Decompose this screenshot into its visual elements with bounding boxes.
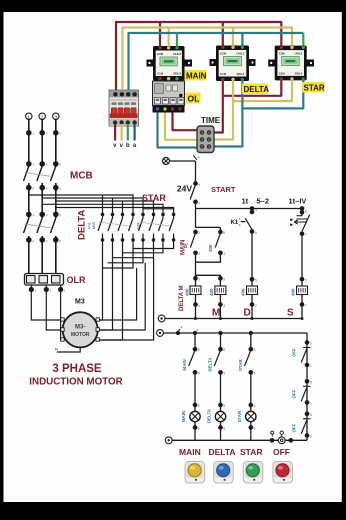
node M2 bottom xyxy=(219,303,222,306)
svg-text:M: M xyxy=(212,308,220,319)
label MAIN highlight xyxy=(185,70,207,81)
wire branch b2 L2 to star bank s1 xyxy=(42,188,143,213)
svg-text:4: 4 xyxy=(198,252,200,256)
wire motor terminal 2V to star riser xyxy=(98,263,145,330)
svg-text:K1: K1 xyxy=(231,220,239,226)
MAIN contactor pole 3 xyxy=(51,188,58,242)
node 1 xyxy=(194,200,197,203)
svg-text:STAR: STAR xyxy=(237,410,242,422)
wire MCB bottom B xyxy=(127,124,129,141)
svg-text:M3-: M3- xyxy=(75,325,85,331)
motor terminal marks xyxy=(61,318,100,341)
node D6 xyxy=(250,230,253,233)
svg-text:1t: 1t xyxy=(242,197,249,206)
node S bottom xyxy=(300,303,303,306)
svg-text:DELTA: DELTA xyxy=(244,85,270,94)
svg-text:TIME: TIME xyxy=(201,116,221,125)
linkage bar main contacts xyxy=(25,224,53,228)
frame bars xyxy=(0,0,346,12)
ground symbol rail3 xyxy=(165,437,172,444)
OLR overload relay box xyxy=(25,274,64,286)
wire yellow drop to MAIN xyxy=(168,28,170,47)
svg-text:1: 1 xyxy=(198,201,200,205)
svg-text:R01: R01 xyxy=(88,222,92,229)
wire delta outputs down to motor xyxy=(98,240,123,340)
timer delay contact S column xyxy=(294,209,307,225)
wire red drop to MAIN xyxy=(159,22,161,46)
svg-text:9: 9 xyxy=(198,372,200,376)
svg-text:4: 4 xyxy=(181,326,183,330)
DELTA bank contacts 4 poles xyxy=(98,213,133,240)
MCB breaker pole 1 xyxy=(24,166,29,192)
wire red drop to DELTA xyxy=(222,22,224,46)
svg-text:b: b xyxy=(126,143,130,149)
svg-text:8: 8 xyxy=(198,404,200,408)
svg-text:C1N: C1N xyxy=(279,72,285,76)
svg-text:UHL3: UHL3 xyxy=(236,52,244,56)
node M coil top right xyxy=(219,277,222,280)
STAR bank dots xyxy=(141,213,175,242)
wire coil bottoms M xyxy=(196,295,221,319)
lamp pilot 24V xyxy=(163,158,170,165)
wire phase L2 vertical xyxy=(40,120,44,167)
svg-text:OFF: OFF xyxy=(292,389,297,398)
svg-text:INDUCTION MOTOR: INDUCTION MOTOR xyxy=(29,377,122,388)
wire riser delta d1 xyxy=(102,195,104,213)
ground symbol rail2 xyxy=(157,330,164,337)
svg-text:D: D xyxy=(244,308,251,319)
node M5 xyxy=(219,230,222,233)
node M2 xyxy=(194,230,197,233)
svg-text:C2N: C2N xyxy=(220,52,226,56)
wire motor terminal 2W to star riser xyxy=(98,258,154,340)
wire OL yellow to timer xyxy=(165,112,202,140)
svg-text:1: 1 xyxy=(28,115,31,120)
wire link s4 to d4 xyxy=(133,240,174,249)
node M4 right xyxy=(219,251,222,254)
wire green drop to MAIN xyxy=(176,33,178,46)
wire star tie bar xyxy=(143,208,174,210)
wire OLR to motor U1 xyxy=(31,290,62,321)
svg-text:DELTA: DELTA xyxy=(77,210,88,240)
wire riser delta d3 xyxy=(122,201,124,213)
svg-text:5: 5 xyxy=(310,342,312,346)
svg-text:9: 9 xyxy=(198,427,200,431)
switch K1 blade D column xyxy=(241,209,252,230)
wire phase L1 vertical xyxy=(27,120,31,167)
node S5 xyxy=(300,211,303,214)
wire M parallel merge xyxy=(196,253,221,278)
wire control rail upper xyxy=(195,161,197,184)
wire yellow drop to DELTA xyxy=(232,28,234,46)
svg-text:STAR: STAR xyxy=(238,359,243,371)
coil S xyxy=(297,286,308,295)
svg-text:8: 8 xyxy=(223,348,225,352)
wire branch b1 L1 to delta bank xyxy=(29,188,133,213)
wire red supply bus xyxy=(116,22,281,90)
svg-text:1: 1 xyxy=(310,364,312,368)
svg-text:3: 3 xyxy=(223,304,225,308)
STAR bank contacts 4 poles xyxy=(139,213,174,240)
wire D column xyxy=(251,232,253,287)
MAIN contactor pole 1 xyxy=(24,188,31,242)
wire link s3 to d3 xyxy=(123,240,164,253)
tiny contact numbers control xyxy=(198,156,307,309)
node S branch xyxy=(300,207,303,210)
contactor MAIN xyxy=(147,46,193,81)
label STAR highlight xyxy=(302,82,325,93)
wire riser delta d2 xyxy=(112,198,114,213)
svg-text:C2N: C2N xyxy=(279,52,285,56)
svg-text:SDL4: SDL4 xyxy=(237,72,245,76)
wire MCB bottom Y xyxy=(120,124,122,141)
svg-text:b: b xyxy=(198,156,200,160)
wire motor terminal 2U to star riser xyxy=(98,268,137,320)
wire phases down to OLR xyxy=(29,240,56,273)
node L2 supply terminal xyxy=(39,113,45,119)
svg-text:3 PHASE: 3 PHASE xyxy=(52,363,102,375)
node M coil top left xyxy=(194,277,197,280)
tiny pole numbers xyxy=(32,132,65,293)
svg-text:2: 2 xyxy=(41,115,44,120)
wire DELTA yellow down to timer xyxy=(210,80,233,140)
svg-text:5–2: 5–2 xyxy=(257,197,270,206)
svg-text:2: 2 xyxy=(305,279,307,283)
wire OLR to motor V1 xyxy=(46,290,62,331)
pushbutton blue xyxy=(214,462,234,484)
svg-text:M3: M3 xyxy=(75,299,85,306)
svg-text:MAIN: MAIN xyxy=(186,72,207,81)
svg-text:OFF: OFF xyxy=(292,348,297,357)
svg-text:STAR: STAR xyxy=(304,84,325,93)
svg-text:MOTOR: MOTOR xyxy=(71,332,90,338)
svg-text:24V: 24V xyxy=(177,184,192,194)
svg-text:6: 6 xyxy=(255,231,257,235)
labels v v b a xyxy=(113,143,137,149)
contactor DELTA xyxy=(210,46,256,82)
svg-text:5: 5 xyxy=(223,278,225,282)
wire D coil bottom xyxy=(251,295,253,319)
wire branch b4 to star bank s3 xyxy=(42,204,163,213)
svg-text:UHL2: UHL2 xyxy=(173,52,181,56)
wire top branch to D and S xyxy=(196,208,303,210)
coil M1 xyxy=(190,286,201,295)
wire link s1 to d1-ext xyxy=(108,240,144,263)
svg-text:8: 8 xyxy=(254,348,256,352)
switch START blade xyxy=(190,186,195,200)
OL overload block under MAIN xyxy=(153,81,185,113)
switch S blade xyxy=(302,215,310,232)
wire branch b5 to star bank s4 xyxy=(56,208,174,213)
svg-text:OFF: OFF xyxy=(273,447,290,457)
svg-text:2: 2 xyxy=(198,231,200,235)
node M4 left xyxy=(194,251,197,254)
node S7 xyxy=(300,232,303,235)
svg-text:7: 7 xyxy=(305,233,307,237)
lamp column STAR xyxy=(245,332,257,441)
node L1 supply terminal xyxy=(26,113,32,119)
wire OL red to timer xyxy=(173,112,202,130)
node S coil top xyxy=(300,278,303,281)
svg-text:5: 5 xyxy=(305,210,307,214)
svg-text:1: 1 xyxy=(310,402,312,406)
svg-text:9: 9 xyxy=(254,372,256,376)
switch M aux blade right xyxy=(215,234,220,248)
wire return rail coils xyxy=(165,318,302,320)
rail junction dots xyxy=(194,317,304,320)
svg-text:MCB: MCB xyxy=(70,171,93,182)
svg-text:5: 5 xyxy=(198,183,200,187)
label DELTA highlight xyxy=(242,84,269,95)
svg-text:400: 400 xyxy=(209,288,214,296)
svg-text:S: S xyxy=(287,308,294,319)
wire lamp return rail xyxy=(172,439,307,441)
wire MCB bottom R xyxy=(114,124,116,141)
wire OL teal to timer xyxy=(158,112,202,148)
node D coil top xyxy=(250,278,253,281)
DELTA bank dots xyxy=(101,213,135,242)
lamp column DELTA xyxy=(214,332,226,441)
svg-text:C1N: C1N xyxy=(220,72,226,76)
svg-text:7: 7 xyxy=(305,304,307,308)
svg-text:4: 4 xyxy=(197,329,199,333)
svg-text:MAIN: MAIN xyxy=(181,411,186,422)
lamp column MAIN xyxy=(189,332,201,441)
svg-text:6: 6 xyxy=(310,435,312,439)
svg-text:400: 400 xyxy=(208,244,213,252)
node M1 bottom xyxy=(194,303,197,306)
contactor STAR xyxy=(268,46,314,81)
tick on rail2 xyxy=(177,329,181,334)
svg-text:400: 400 xyxy=(184,288,189,296)
svg-text:5: 5 xyxy=(310,381,312,385)
wire teal supply bus xyxy=(129,33,304,90)
svg-text:2: 2 xyxy=(255,304,257,308)
MCB breaker pole 3 xyxy=(51,166,56,192)
svg-text:DELTA: DELTA xyxy=(208,357,213,372)
motor M3 xyxy=(63,312,98,347)
svg-text:DELTA: DELTA xyxy=(207,408,212,423)
svg-text:MAIN: MAIN xyxy=(181,240,187,255)
label K1 pins xyxy=(239,217,241,227)
svg-text:9: 9 xyxy=(223,427,225,431)
svg-text:2: 2 xyxy=(198,278,200,282)
svg-text:4: 4 xyxy=(223,252,225,256)
node D3 xyxy=(250,210,253,213)
svg-text:3: 3 xyxy=(255,208,257,212)
node D branch xyxy=(250,207,253,210)
MAIN contactor pole 2 xyxy=(37,188,44,242)
coil D xyxy=(247,286,258,295)
svg-text:1t–IV: 1t–IV xyxy=(289,197,307,206)
svg-text:C1N: C1N xyxy=(157,72,163,76)
wire motor neutral stub xyxy=(55,347,80,353)
svg-text:START: START xyxy=(211,185,236,194)
node L3 supply terminal xyxy=(53,113,59,119)
wire DELTA red down to timer xyxy=(210,80,223,133)
svg-text:DELTA M: DELTA M xyxy=(179,285,185,311)
svg-text:9: 9 xyxy=(223,372,225,376)
svg-text:9: 9 xyxy=(254,404,256,408)
node above START xyxy=(194,182,197,185)
pushbutton green xyxy=(243,462,262,484)
svg-text:MAIN: MAIN xyxy=(182,359,187,370)
svg-text:C2N: C2N xyxy=(157,52,163,56)
svg-text:OL: OL xyxy=(188,94,200,104)
wire phase L3 vertical xyxy=(54,120,58,167)
svg-text:8: 8 xyxy=(198,348,200,352)
wire lamp feed rail xyxy=(164,332,308,334)
svg-text:DELTA: DELTA xyxy=(209,447,236,457)
wire rail to branch row xyxy=(195,202,197,228)
svg-text:OLR: OLR xyxy=(67,275,86,285)
pushbutton yellow xyxy=(185,462,205,484)
wire S coil bottom xyxy=(301,295,303,319)
svg-text:SDL4: SDL4 xyxy=(295,72,303,76)
wire STAR teal return xyxy=(242,80,303,108)
MCB 4-pole breaker module xyxy=(109,90,139,126)
wire link d4 down-left xyxy=(103,240,134,268)
label OL highlight xyxy=(186,93,201,104)
wire branch b3 L3 to star bank s2 xyxy=(56,188,154,213)
socket symbol on rail3 xyxy=(270,431,292,444)
wire STAR yellow return xyxy=(233,80,292,101)
svg-text:STAR: STAR xyxy=(240,447,263,457)
wire MCB bottom N xyxy=(134,124,136,141)
svg-text:STAR: STAR xyxy=(142,193,166,203)
OFF chain column xyxy=(301,333,310,440)
svg-text:5: 5 xyxy=(310,413,312,417)
wire DELTA teal down to timer xyxy=(210,80,242,147)
dots below MCB xyxy=(27,186,58,190)
wire S column xyxy=(301,234,303,286)
ground symbol rail1 xyxy=(158,315,165,322)
svg-text:MAIN: MAIN xyxy=(179,447,201,457)
svg-text:400: 400 xyxy=(240,288,245,296)
svg-text:5: 5 xyxy=(255,279,257,283)
wire M parallel top xyxy=(196,227,221,232)
pushbutton red xyxy=(273,462,293,484)
svg-text:5: 5 xyxy=(223,231,225,235)
wire lamp to control rail xyxy=(170,160,196,162)
timer relay xyxy=(197,126,214,153)
MCB linkage bar xyxy=(25,173,53,177)
wire coil stubs M xyxy=(196,278,221,286)
svg-text:400: 400 xyxy=(290,288,295,296)
OLR bottom terminals xyxy=(30,285,63,291)
svg-text:OFF: OFF xyxy=(292,423,297,432)
MCB breaker pole 2 xyxy=(37,166,42,192)
wire OLR to motor W1 xyxy=(61,290,62,341)
coil M2 xyxy=(215,286,226,295)
tiny marks S contact xyxy=(290,219,292,226)
wire green drop to STAR xyxy=(302,33,304,46)
svg-text:M15: M15 xyxy=(92,222,96,229)
wire teal drop to DELTA xyxy=(241,33,243,46)
wire yellow supply bus xyxy=(123,28,293,91)
svg-text:N: N xyxy=(55,347,58,352)
svg-text:9: 9 xyxy=(223,404,225,408)
wire link s2 to d2 xyxy=(113,240,154,258)
svg-text:3: 3 xyxy=(55,115,58,120)
node D bottom xyxy=(250,303,253,306)
svg-text:SDL3: SDL3 xyxy=(173,72,181,76)
switch M holding blade left xyxy=(190,234,195,248)
tiny numbers lamp section xyxy=(181,326,313,439)
wire STAR red return to timer feed xyxy=(223,80,281,96)
svg-text:1: 1 xyxy=(198,304,200,308)
svg-text:UHL2: UHL2 xyxy=(294,52,302,56)
svg-text:9: 9 xyxy=(254,427,256,431)
switch tick at rail top xyxy=(193,155,197,159)
